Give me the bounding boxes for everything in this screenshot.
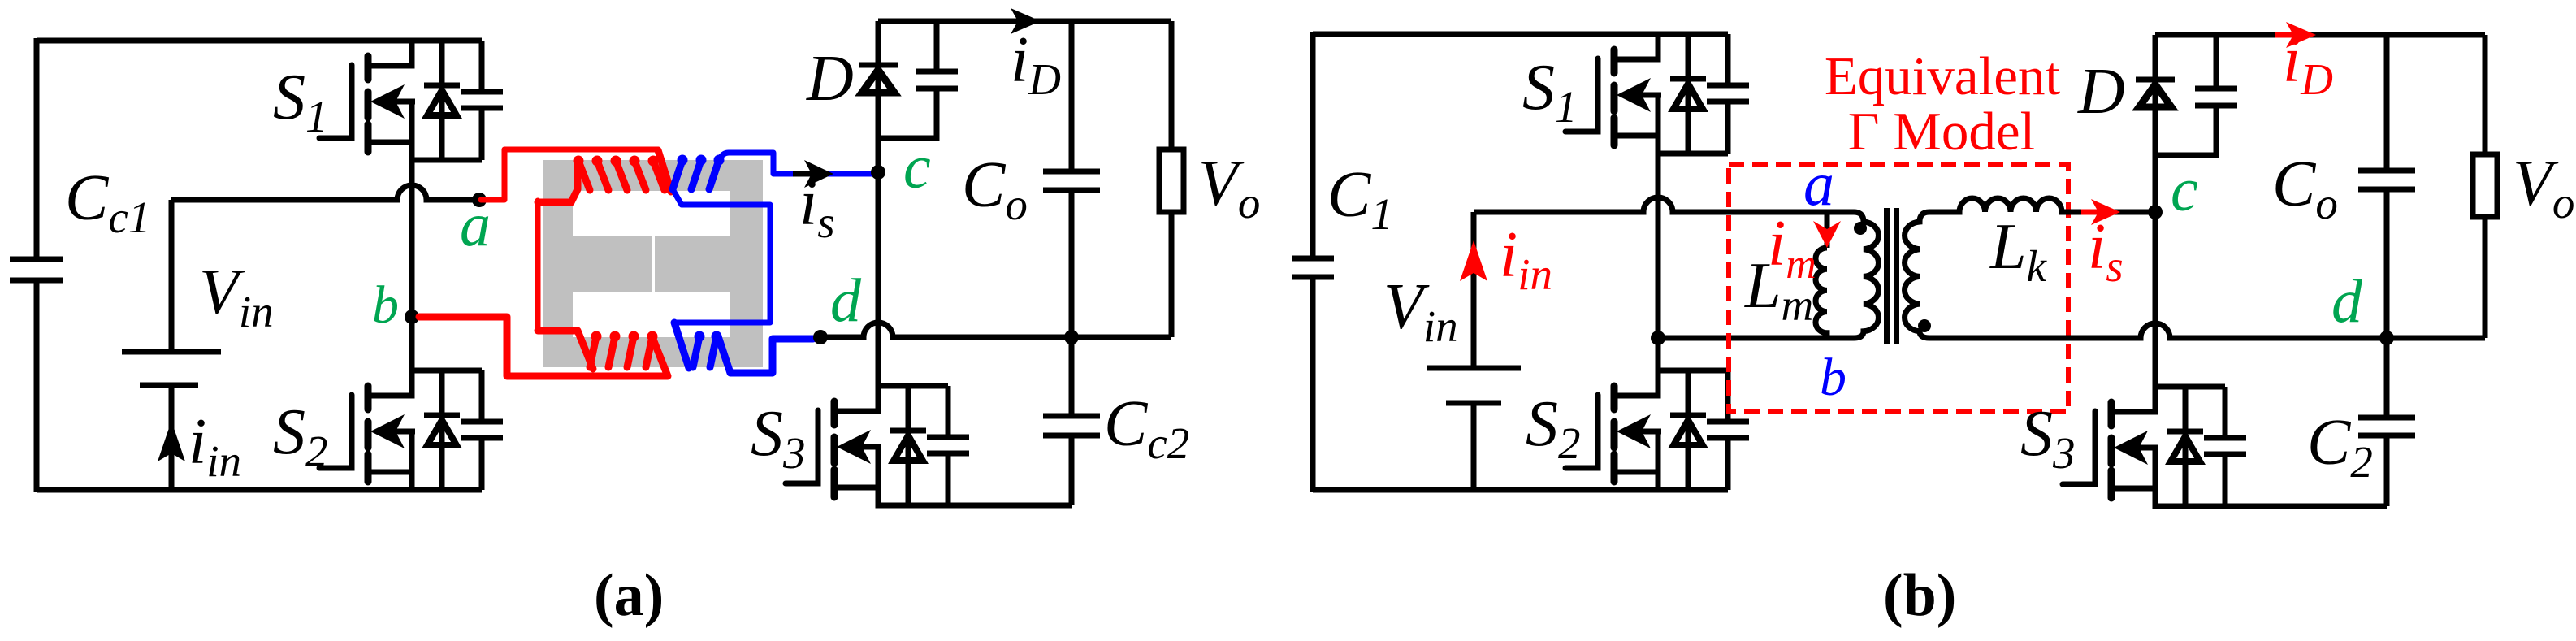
wire: output top rail of (b) (2155, 32, 2485, 38)
transistor S2 (319, 370, 503, 490)
wire: top coil exit to left side (538, 162, 578, 202)
wire: node a to top coil entry (481, 149, 658, 200)
arrow i_D (diode current, black, pointing right) (1011, 8, 1041, 34)
transistor S1 (1565, 34, 1749, 154)
snubber capacitor beside D (878, 21, 958, 138)
wire: bottom secondary exit to node d (718, 336, 813, 373)
arrow i_D (red, pointing right) (2275, 32, 2294, 38)
primary turn bends (red blobs) (574, 156, 659, 342)
wire: top rail of circuit (b) (1313, 32, 1728, 37)
arrow i_s (red, pointing right) (2081, 210, 2099, 215)
node c (871, 165, 885, 180)
svg-text:(b): (b) (1883, 562, 1956, 629)
wire: bottom wire to transformer primary (1658, 336, 1854, 341)
transistor S3 of (b) (2063, 387, 2246, 506)
top primary turns (578, 161, 590, 190)
node a (472, 193, 487, 207)
diode D (859, 65, 898, 93)
snubber capacitor beside D (2155, 35, 2237, 155)
arrow i_in (red, pointing up) (1460, 240, 1487, 281)
svg-text:D: D (2077, 56, 2125, 128)
node d (813, 330, 828, 344)
wire: S3 source bus extension to Cc2 (948, 503, 1072, 509)
load Vo of (b) (2473, 35, 2497, 338)
svg-text:Γ Model: Γ Model (1848, 102, 2035, 162)
wire: top rail of circuit (a) (37, 38, 482, 44)
secondary turn bends (blue blobs) (678, 155, 725, 342)
wire: bottom coil exit to node b (419, 317, 668, 376)
polarity dot (primary) (1854, 222, 1867, 235)
capacitor Cc1 (10, 38, 63, 492)
arrow i_in (input current, pointing up) (158, 421, 185, 461)
svg-text:Equivalent: Equivalent (1825, 46, 2061, 106)
wire: half-bridge midline of (b) (1656, 154, 1661, 370)
wire: output bottom rail with hop over diode branch (820, 323, 1171, 337)
wire: bottom rail of (b) right with hop over node c column (1929, 323, 2485, 338)
planar transformer core (gray E-E core) (543, 160, 763, 367)
capacitor C1 (1292, 32, 1334, 492)
capacitor Co (1043, 21, 1100, 337)
inductor Lm (magnetizing inductance) (1816, 212, 1827, 338)
node d of (b) (2379, 331, 2394, 345)
wire: S3 source bus extension to C2 (2225, 504, 2387, 509)
load Vo (resistor box) (1159, 21, 1184, 337)
wire: node c column of (b) (2153, 35, 2158, 387)
wire: node c column (diode branch) (876, 21, 881, 386)
wire: Vin to node a with hop over midline (1474, 197, 1854, 212)
top secondary turns (673, 160, 682, 189)
transformer of (b): primary coil (1854, 212, 1878, 338)
svg-text:d: d (830, 266, 862, 335)
wire: bottom rail of circuit (a) (37, 487, 482, 493)
transformer of (b): secondary coil (1905, 212, 1929, 338)
junction: Co/Cc2 on bottom rail (1064, 330, 1079, 344)
primary winding (red) of planar transformer (419, 149, 671, 376)
transistor S3 (786, 386, 969, 505)
inductor Lk (leakage inductance) (1929, 198, 2149, 212)
bottom primary turns (590, 336, 596, 367)
svg-text:c: c (2171, 156, 2198, 224)
svg-text:D: D (806, 43, 854, 115)
capacitor Co of (b) (2358, 35, 2415, 338)
wire: S1 source to S2 drain (half-bridge midline) (409, 160, 415, 370)
wire: secondary link down right side (673, 189, 770, 323)
transistor S2 (1565, 370, 1749, 490)
wire: left vertical of primary (535, 201, 541, 331)
wire: bottom rail of circuit (b) (1313, 487, 1728, 493)
source Vin (battery) (122, 200, 221, 490)
svg-text:c: c (903, 133, 931, 201)
source Vin (battery) (1427, 212, 1521, 490)
diode D of (b) (2136, 80, 2175, 107)
capacitor C2 (2358, 338, 2415, 506)
node c of (b) (2148, 205, 2163, 219)
arrow i_s (secondary current, black, pointing right) (793, 171, 814, 177)
arrow i_m (red, pointing down into Lm) (1813, 221, 1841, 248)
svg-text:(a): (a) (594, 562, 664, 629)
wire: top secondary to node c (719, 153, 872, 174)
red dashed box: Equivalent Gamma Model (1729, 165, 2068, 412)
svg-text:a: a (1803, 150, 1834, 219)
svg-text:b: b (1820, 348, 1846, 407)
node b (405, 310, 419, 324)
node: midline junction dot (1651, 331, 1665, 345)
bottom secondary turns (693, 336, 699, 367)
transformer core (double bars) (1884, 208, 1890, 344)
wire: output top rail (878, 19, 1171, 24)
svg-text:b: b (372, 275, 399, 335)
capacitor Cc2 (1043, 337, 1100, 505)
wire: into bottom primary coil (538, 331, 593, 369)
svg-text:d: d (2331, 267, 2363, 336)
transistor S1 (319, 41, 503, 160)
wire: Vin to node a with hop over midline (171, 185, 479, 200)
polarity dot (secondary) (1918, 319, 1931, 332)
secondary winding (blue) of planar transformer (673, 153, 872, 373)
